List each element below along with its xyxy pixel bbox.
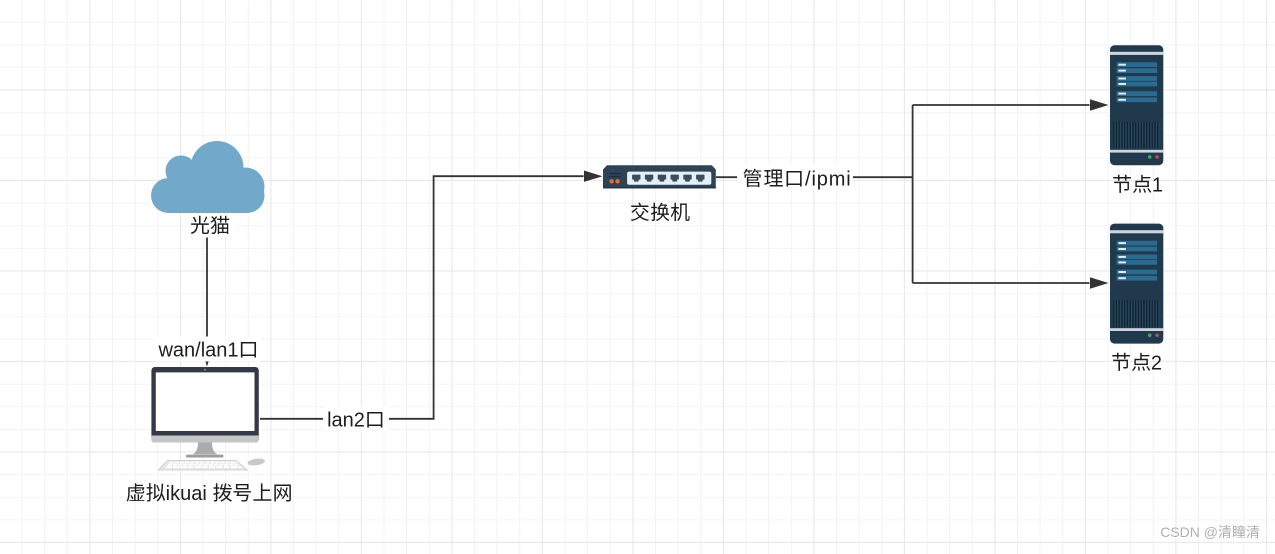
wire monitor to switch (lan2) — [260, 171, 603, 419]
svg-text:管理口/ipmi: 管理口/ipmi — [742, 169, 851, 191]
edge label lan2口 — [323, 407, 389, 432]
server 节点2 — [1110, 224, 1163, 344]
junction vertical wire — [912, 105, 914, 283]
svg-text:节点1: 节点1 — [1112, 175, 1163, 197]
svg-text:虚拟ikuai 拨号上网: 虚拟ikuai 拨号上网 — [126, 482, 293, 505]
wire switch to junction — [716, 176, 913, 178]
svg-text:交换机: 交换机 — [630, 203, 691, 225]
wire cloud to monitor — [202, 219, 213, 367]
svg-text:节点2: 节点2 — [1111, 353, 1162, 375]
svg-text:光猫: 光猫 — [190, 216, 230, 238]
server 节点1 — [1110, 45, 1163, 165]
cloud (光猫 modem) — [151, 141, 265, 213]
svg-text:CSDN @清瞳清: CSDN @清瞳清 — [1160, 524, 1260, 540]
node label 光猫 — [184, 215, 236, 238]
mouse — [247, 458, 265, 467]
switch 交换机 — [603, 165, 716, 188]
edge label wan/lan1口 — [154, 337, 261, 362]
edge label 管理口/ipmi — [737, 164, 853, 191]
keyboard — [159, 461, 248, 471]
svg-text:lan2口: lan2口 — [327, 410, 385, 432]
monitor (虚拟ikuai PC) — [151, 367, 258, 458]
wire junction to server1 — [913, 99, 1109, 110]
wire junction to server2 — [913, 277, 1109, 288]
svg-text:wan/lan1口: wan/lan1口 — [157, 340, 258, 362]
